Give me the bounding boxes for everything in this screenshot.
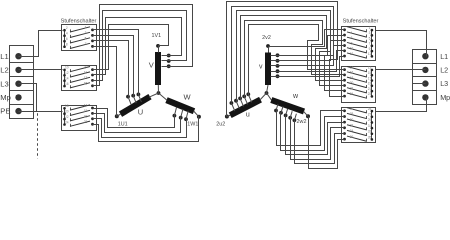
wire S3 row 2 around bottom to W tap 2: [97, 114, 181, 133]
U tap 3 stub to bar: [138, 94, 141, 102]
svg-text:12: 12: [350, 52, 354, 56]
S4 contact row 1-2: [371, 29, 374, 32]
v tap 3 node: [276, 64, 280, 68]
svg-text:14: 14: [350, 65, 354, 69]
step switch deck S1: [62, 25, 97, 51]
wire S4 row 4 down to v tap 3: [278, 46, 342, 66]
svg-text:2: 2: [351, 26, 353, 30]
svg-text:19: 19: [84, 109, 88, 113]
wire L2 to S2: [19, 69, 63, 71]
W tap 3 node: [184, 117, 188, 121]
S5 contact row 13-14: [371, 69, 374, 72]
svg-text:13: 13: [84, 76, 88, 80]
S1 contact row 8-7: [63, 45, 66, 48]
link star point to w bar (right): [267, 93, 272, 100]
step switch deck S5: [342, 67, 376, 103]
S3 contact row 20-19: [63, 112, 66, 115]
svg-text:23: 23: [84, 120, 88, 124]
svg-text:13: 13: [368, 66, 372, 70]
svg-text:L3: L3: [0, 79, 8, 88]
terminal strip X1 (left): [10, 46, 34, 119]
S1 contact row 4-3: [63, 34, 66, 37]
S6 contact row 31-32: [371, 127, 374, 130]
link star point to W bar: [159, 93, 168, 100]
svg-text:11: 11: [368, 52, 372, 56]
W tap 3 stub to bar: [186, 111, 188, 120]
svg-text:26: 26: [350, 107, 354, 111]
svg-text:3: 3: [369, 31, 371, 35]
wire S3 row 1 around bottom to W tap 1: [97, 109, 175, 128]
svg-text:16: 16: [65, 82, 69, 86]
svg-text:5: 5: [369, 36, 371, 40]
terminal 2w2 node: [306, 114, 310, 118]
v tap 1 node: [276, 53, 280, 57]
wire S5 row 4 over top to u tap 2: [237, 11, 342, 101]
S6 contact row 29-30: [371, 121, 374, 124]
svg-text:8: 8: [351, 41, 353, 45]
wire S2 row 1 over top to 1V1: [97, 25, 169, 70]
wire S4 row 2 down to v tap 1: [278, 36, 342, 56]
wire S1 row 4 down to 1U1: [97, 47, 117, 117]
U tap 1 node: [126, 95, 130, 99]
svg-text:Mp: Mp: [0, 93, 11, 102]
winding W (bar): [167, 100, 195, 111]
v tap 4 node: [276, 69, 280, 73]
svg-text:1U1: 1U1: [118, 122, 128, 128]
wire S5 row 1 over top to u tap 5: [249, 25, 342, 95]
u tap 3 node: [238, 97, 242, 101]
svg-text:30: 30: [350, 118, 354, 122]
v tap 2 stub to bar: [271, 60, 278, 62]
S4 contact row 7-8: [371, 45, 374, 48]
link star point to U bar: [149, 93, 159, 97]
winding u (bar, right): [230, 100, 260, 116]
S6 contact row 33-34: [371, 132, 374, 135]
W tap 2 stub to bar: [181, 109, 183, 118]
v tap 2 node: [276, 59, 280, 63]
wire Mp (right) to S6: [376, 98, 427, 112]
svg-text:25: 25: [368, 107, 372, 111]
terminal 2v2 node: [266, 44, 270, 48]
step switch deck S2: [62, 66, 97, 91]
wire S5 row 5 over top to u tap 1: [232, 7, 342, 103]
svg-text:31: 31: [368, 124, 372, 128]
S2 contact row 14-13: [63, 79, 66, 82]
svg-text:v: v: [259, 63, 263, 70]
S3 input bus: [64, 109, 66, 125]
V tap 2 stub to bar: [162, 60, 169, 62]
stub 2w2 to w bar: [304, 111, 309, 116]
wire S6 row 2 around bottom to w tap 2: [281, 113, 342, 151]
wire S3 row 3 around bottom to W tap 3: [97, 119, 187, 138]
terminal strip X2 (right): [413, 50, 437, 105]
link star point to u bar (right): [260, 93, 267, 100]
V tap 3 node: [167, 64, 171, 68]
w tap 2 node: [279, 111, 283, 115]
v tap 4 stub to bar: [271, 71, 278, 73]
S1 input bus: [64, 31, 66, 47]
S3 contact row 22-21: [63, 118, 66, 121]
wire S6 row 3 around bottom to w tap 3: [286, 116, 342, 155]
svg-text:Stufenschalter: Stufenschalter: [61, 19, 97, 25]
W tap 2 node: [179, 116, 183, 120]
winding U (bar): [121, 97, 151, 115]
wire S2 row 2 over top to V tap 1: [97, 18, 182, 75]
svg-text:4: 4: [351, 31, 353, 35]
wire S4 row 1 down to 2v2: [269, 30, 342, 47]
wire S6 row 1 around bottom to w tap 1: [277, 111, 342, 146]
wire S6 row 4 around bottom to w tap 4: [291, 118, 342, 160]
svg-text:10: 10: [350, 47, 354, 51]
S2 input bus: [64, 70, 66, 87]
star point node (right motor): [265, 91, 269, 95]
svg-text:1: 1: [369, 26, 371, 30]
u tap 2 node: [234, 99, 238, 103]
u tap 5 node: [246, 92, 250, 96]
svg-text:24: 24: [350, 92, 354, 96]
S2 contact row 16-15: [63, 85, 66, 88]
wire L1 to S1: [19, 31, 63, 57]
svg-text:6: 6: [66, 37, 68, 41]
v tap 5 node: [276, 74, 280, 78]
wire L2 (right) to S5: [376, 69, 426, 71]
S6 contact row 25-26: [371, 110, 374, 113]
terminal 1V1 node: [156, 44, 160, 48]
svg-text:10: 10: [65, 66, 69, 70]
wire S5 row 3 over top to u tap 3: [241, 16, 342, 99]
svg-text:33: 33: [368, 130, 372, 134]
V tap 3 stub to bar: [162, 66, 169, 68]
v tap 5 stub to bar: [271, 76, 278, 78]
svg-text:L1: L1: [440, 52, 448, 61]
terminal 1W1 node: [197, 115, 201, 119]
u tap 1 node: [230, 101, 234, 105]
wire S2 row 3 over top to V tap 2: [97, 11, 187, 81]
S5 contact row 21-22: [371, 90, 374, 93]
svg-text:6: 6: [351, 36, 353, 40]
S4 contact row 11-12: [371, 55, 374, 58]
stub 2v2 to v bar: [268, 47, 270, 53]
svg-text:L1: L1: [0, 52, 8, 61]
dashed earth line from PE: [37, 113, 39, 158]
S5 contact row 15-16: [371, 74, 374, 77]
terminal 1U1 node: [115, 114, 119, 118]
stub L3 (right): [413, 83, 426, 85]
svg-text:W: W: [183, 93, 191, 102]
svg-text:U: U: [138, 108, 143, 117]
stub 1V1 to V bar: [158, 46, 160, 53]
step switch deck S6: [342, 108, 376, 143]
wire S5 row 2 over top to u tap 4: [245, 21, 342, 97]
u tap 1 stub to bar: [231, 103, 234, 111]
S5 contact row 23-24: [371, 95, 374, 98]
svg-text:1W1: 1W1: [187, 121, 198, 127]
W tap 1 stub to bar: [174, 107, 176, 116]
wire S1 row 1 down to U tap 3: [97, 30, 139, 95]
svg-text:20: 20: [65, 110, 69, 114]
svg-text:5: 5: [85, 37, 87, 41]
wire S4 row 5 down to v tap 4: [278, 51, 342, 72]
svg-text:20: 20: [350, 81, 354, 85]
U tap 2 node: [131, 94, 135, 98]
stub 2u2 to u bar: [227, 115, 231, 116]
svg-text:Stufenschalter: Stufenschalter: [343, 19, 379, 25]
wire S5 row 6 over top to 2u2: [227, 2, 342, 117]
svg-text:1V1: 1V1: [152, 33, 162, 39]
winding v (bar, right): [265, 53, 271, 86]
S5 contact row 17-18: [371, 79, 374, 82]
u tap 5 stub to bar: [248, 94, 251, 102]
w tap 2 stub to bar: [281, 106, 283, 113]
S3 contact row 18-17: [63, 107, 66, 110]
svg-text:9: 9: [369, 47, 371, 51]
svg-text:2u2: 2u2: [216, 122, 225, 128]
wire S4 row 3 down to v tap 2: [278, 41, 342, 61]
S4 contact row 3-4: [371, 34, 374, 37]
step switch deck S4: [342, 27, 376, 61]
svg-text:1: 1: [85, 26, 87, 30]
svg-text:36: 36: [350, 135, 354, 139]
svg-text:17: 17: [368, 76, 372, 80]
v tap 3 stub to bar: [271, 65, 278, 67]
svg-text:Mp: Mp: [440, 93, 450, 102]
svg-text:2: 2: [66, 26, 68, 30]
svg-text:L3: L3: [440, 79, 448, 88]
U tap 2 stub to bar: [133, 96, 136, 104]
link V bar to star point: [157, 85, 159, 93]
svg-text:2v2: 2v2: [262, 35, 271, 41]
S6 contact row 27-28: [371, 115, 374, 118]
svg-text:2w2: 2w2: [297, 119, 307, 125]
svg-text:19: 19: [368, 82, 372, 86]
svg-text:22: 22: [65, 115, 69, 119]
svg-text:23: 23: [368, 92, 372, 96]
svg-text:PE: PE: [0, 107, 10, 116]
S6 contact row 35-36: [371, 138, 374, 141]
w tap 5 stub to bar: [294, 114, 296, 121]
svg-text:12: 12: [65, 71, 69, 75]
wire S1 row 3 down to U tap 1: [97, 41, 129, 97]
wire S1 row 2 down to U tap 2: [97, 36, 134, 96]
svg-text:24: 24: [65, 120, 69, 124]
svg-text:32: 32: [350, 124, 354, 128]
S1 contact row 2-1: [63, 29, 66, 32]
svg-text:3: 3: [85, 31, 87, 35]
S5 contact row 19-20: [371, 85, 374, 88]
svg-text:18: 18: [350, 76, 354, 80]
wire S6 row 5 around bottom to w tap 5: [295, 121, 342, 164]
svg-text:27: 27: [368, 113, 372, 117]
u tap 4 node: [242, 95, 246, 99]
svg-text:28: 28: [350, 112, 354, 116]
u tap 4 stub to bar: [244, 96, 247, 104]
stub 1W1 to W bar: [194, 111, 199, 117]
w tap 3 stub to bar: [286, 109, 288, 116]
winding V (bar): [155, 52, 161, 85]
wire S2 row 4 over top to V tap 3: [97, 5, 193, 86]
wire S6 row 6 around bottom to 2w2: [309, 117, 342, 169]
wire PE to S3: [19, 111, 63, 113]
S3 contact row 24-23: [63, 123, 66, 126]
w tap 4 stub to bar: [290, 111, 292, 118]
winding w (bar, right): [271, 100, 304, 112]
S5 input bus: [371, 70, 373, 97]
V tap 1 stub to bar: [162, 55, 169, 57]
svg-text:29: 29: [368, 118, 372, 122]
S4 contact row 5-6: [371, 39, 374, 42]
w tap 1 stub to bar: [276, 104, 278, 111]
wire L1 (right) to S4: [376, 31, 427, 57]
svg-text:15: 15: [84, 82, 88, 86]
V tap 2 node: [167, 59, 171, 63]
svg-text:16: 16: [350, 71, 354, 75]
svg-text:4: 4: [66, 32, 68, 36]
S4 contact row 9-10: [371, 50, 374, 53]
svg-text:V: V: [149, 60, 154, 69]
svg-text:8: 8: [66, 43, 68, 47]
svg-text:17: 17: [84, 104, 88, 108]
svg-text:14: 14: [65, 77, 69, 81]
terminal 2u2 node: [225, 115, 229, 119]
svg-text:35: 35: [368, 135, 372, 139]
star point node (left motor): [157, 91, 161, 95]
S4 input bus: [371, 31, 373, 57]
S2 contact row 10-9: [63, 69, 66, 72]
v tap 1 stub to bar: [271, 55, 278, 57]
svg-text:w: w: [292, 93, 299, 100]
wire L3 down: [19, 84, 37, 112]
svg-text:u: u: [246, 111, 250, 118]
w tap 1 node: [274, 109, 278, 113]
stub 1U1 to U bar: [117, 114, 121, 117]
u tap 3 stub to bar: [240, 98, 243, 106]
link v bar to star point (right): [267, 85, 269, 93]
svg-text:22: 22: [350, 87, 354, 91]
svg-text:21: 21: [368, 87, 372, 91]
wire S4 row 6 down to v tap 5: [278, 57, 342, 77]
svg-text:7: 7: [369, 42, 371, 46]
step switch deck S3: [62, 106, 97, 131]
U tap 1 stub to bar: [128, 97, 131, 105]
svg-text:11: 11: [84, 71, 88, 75]
svg-text:7: 7: [85, 42, 87, 46]
w tap 5 node: [293, 118, 297, 122]
S1 contact row 6-5: [63, 40, 66, 43]
u tap 2 stub to bar: [236, 101, 239, 109]
U tap 3 node: [137, 93, 141, 97]
svg-text:21: 21: [84, 115, 88, 119]
w tap 3 node: [284, 114, 288, 118]
S6 input bus: [371, 112, 373, 140]
wire S3 row 4 around bottom to 1W1: [97, 117, 199, 142]
svg-text:9: 9: [85, 65, 87, 69]
svg-text:18: 18: [65, 104, 69, 108]
svg-text:L2: L2: [0, 66, 8, 75]
w tap 4 node: [288, 116, 292, 120]
svg-text:15: 15: [368, 71, 372, 75]
W tap 1 node: [173, 114, 177, 118]
svg-text:34: 34: [350, 129, 354, 133]
svg-text:L2: L2: [440, 66, 448, 75]
S2 contact row 12-11: [63, 74, 66, 77]
V tap 1 node: [167, 54, 171, 58]
